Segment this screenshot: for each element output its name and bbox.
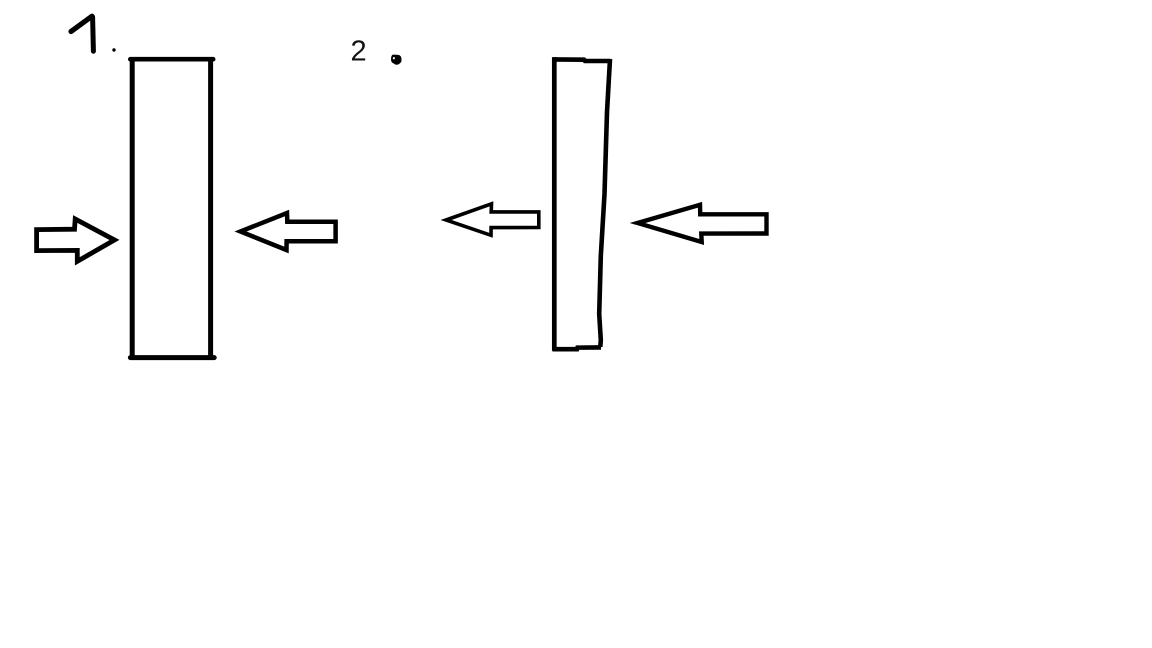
rectangle 2 (right bar, slightly slanted) [553, 57, 611, 351]
rectangle 1 (left bar) [130, 58, 214, 360]
arrow left-pointing (right of rectangle 2) [638, 205, 767, 242]
label 1 (handwritten digit) [71, 16, 93, 51]
arrow left-pointing (right of rectangle 1) [241, 213, 336, 250]
scribble dot after 2 [391, 55, 402, 65]
period after 1 [112, 48, 115, 51]
svg-text:2: 2 [351, 35, 367, 67]
arrow right-pointing (left of rectangle 1) [37, 219, 115, 261]
arrow left-pointing (left of rectangle 2) [446, 204, 539, 236]
